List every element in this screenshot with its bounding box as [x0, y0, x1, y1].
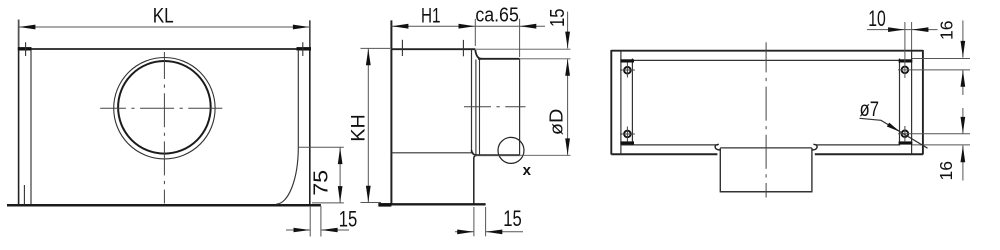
right flange cap bottom: [899, 141, 913, 144]
svg-text:ø7: ø7: [860, 98, 880, 121]
collar left side: [719, 148, 721, 192]
svg-text:75: 75: [310, 170, 332, 196]
inner top line: [621, 59, 900, 61]
arrow H1 left: [392, 24, 409, 29]
arrow 15M left: [457, 230, 474, 235]
arrow ca65 right: [520, 24, 537, 29]
arrow 15L right: [321, 228, 338, 233]
inner left line: [620, 51, 622, 154]
arrow 15M right: [486, 230, 503, 235]
detail circle x: [498, 137, 524, 163]
spigot centerline: [464, 106, 526, 108]
left view bottom plate: [7, 204, 321, 207]
middle view top edge: [391, 48, 475, 50]
dimension KL: [19, 20, 310, 48]
right view outer top edge: [611, 50, 923, 52]
dimension 15 (left view bottom): [286, 206, 349, 237]
right view outer right edge: [922, 50, 924, 155]
left flange cap top: [620, 59, 634, 62]
svg-text:16: 16: [936, 161, 956, 181]
hole cross ticks left: [626, 63, 628, 78]
spigot bead line 1: [475, 60, 477, 155]
dimension oD: [474, 59, 571, 155]
dimension 16 top: [898, 20, 970, 95]
hole top-left: [624, 67, 631, 74]
arrow H1 right / ca65 left: [459, 24, 476, 29]
arrow 15T down: [565, 32, 570, 48]
svg-text:øD: øD: [545, 109, 566, 135]
svg-text:x: x: [523, 162, 532, 179]
dimension KH: [361, 48, 391, 202]
right view outer left edge: [610, 50, 612, 155]
left flange strip right side: [631, 59, 633, 146]
bottom plate foot: [378, 203, 391, 206]
svg-text:15: 15: [547, 9, 569, 28]
svg-text:15: 15: [503, 206, 522, 231]
svg-text:16: 16: [936, 20, 956, 40]
arrow 16T down: [961, 41, 966, 58]
hole centerline right bottom: [904, 126, 906, 142]
arrow 16B down: [961, 117, 966, 133]
left view top edge: [18, 48, 311, 50]
spigot bottom edge: [474, 154, 520, 156]
dimension 15 (middle top): [475, 12, 570, 59]
left flange cap top-left: [18, 47, 32, 50]
collar curl left: [715, 144, 720, 150]
svg-text:KL: KL: [153, 4, 174, 28]
left view left edge: [18, 20, 20, 206]
arrow 16T up: [961, 70, 966, 87]
svg-text:KH: KH: [349, 114, 370, 142]
dimension ca.65: [519, 19, 521, 57]
dimension 75 (left view): [298, 147, 344, 203]
collar bottom: [720, 191, 813, 193]
front flange tick: [401, 40, 403, 56]
arrow 10 left: [888, 27, 905, 32]
rear flange tick: [462, 40, 464, 56]
middle view right wall upper: [471, 50, 473, 154]
centerline vertical: [163, 52, 165, 204]
left flange cap top-right: [297, 47, 312, 50]
centerline horizontal: [100, 107, 222, 109]
collar right side: [811, 148, 813, 192]
inner right line: [911, 51, 913, 154]
svg-text:10: 10: [868, 6, 886, 31]
left view right edge: [309, 20, 311, 205]
arrow 16B up: [961, 146, 966, 163]
svg-text:15: 15: [339, 206, 358, 231]
arrow 75 top: [338, 148, 343, 165]
arrow oD top: [565, 59, 570, 76]
middle view left edge: [390, 20, 392, 204]
dimension 16 bottom: [898, 108, 970, 181]
spigot bead line 2: [479, 60, 481, 155]
hole bottom-left: [624, 131, 631, 138]
flange tick top-left: [25, 42, 27, 56]
opening inner circle: [118, 61, 211, 154]
arrow KL right: [293, 25, 310, 30]
hole bottom-right: [902, 131, 909, 138]
arrow KH top: [366, 49, 371, 65]
arrow KL left: [19, 25, 36, 30]
hole top-right: [902, 67, 909, 74]
arrow KH bottom: [366, 186, 371, 203]
inner bottom line (middle view): [392, 152, 474, 154]
spigot root step curve: [475, 50, 481, 59]
right view centerline: [765, 42, 767, 197]
left flange cap bottom: [620, 141, 634, 144]
right view outer bottom edge left run: [611, 153, 717, 155]
right flange strip left side: [899, 59, 901, 146]
svg-text:H1: H1: [421, 4, 441, 28]
collar top line: [720, 147, 812, 149]
spigot top edge: [478, 58, 520, 60]
right view outer bottom edge right run: [815, 153, 923, 155]
collar curl right: [812, 144, 817, 150]
dimension H1: [391, 19, 545, 46]
flange tick top-right: [302, 42, 304, 56]
dimension 10: [867, 22, 938, 78]
spigot root bottom hook: [472, 150, 478, 155]
inner bottom line right: [816, 144, 900, 146]
arrow o7: [887, 123, 900, 132]
middle view bottom plate: [378, 203, 485, 205]
sheet bend curve bottom-right: [277, 147, 299, 204]
leader o7: [860, 118, 928, 148]
arrow oD bottom: [565, 138, 570, 155]
right flange cap top: [899, 59, 913, 62]
flange tick bottom-left: [23, 185, 25, 204]
middle view right wall lower: [474, 155, 476, 203]
spigot end: [519, 59, 521, 155]
left flange inner line left: [30, 50, 32, 204]
dimension 15 (middle bottom): [455, 207, 523, 236]
arrow 15L left: [294, 228, 311, 233]
left flange inner line right: [297, 50, 299, 147]
arrow 75 bottom: [338, 186, 343, 203]
svg-text:ca.65: ca.65: [475, 4, 519, 26]
arrow 10 right: [912, 27, 929, 32]
inner bottom line left: [621, 144, 718, 146]
opening outer circle: [114, 57, 215, 158]
